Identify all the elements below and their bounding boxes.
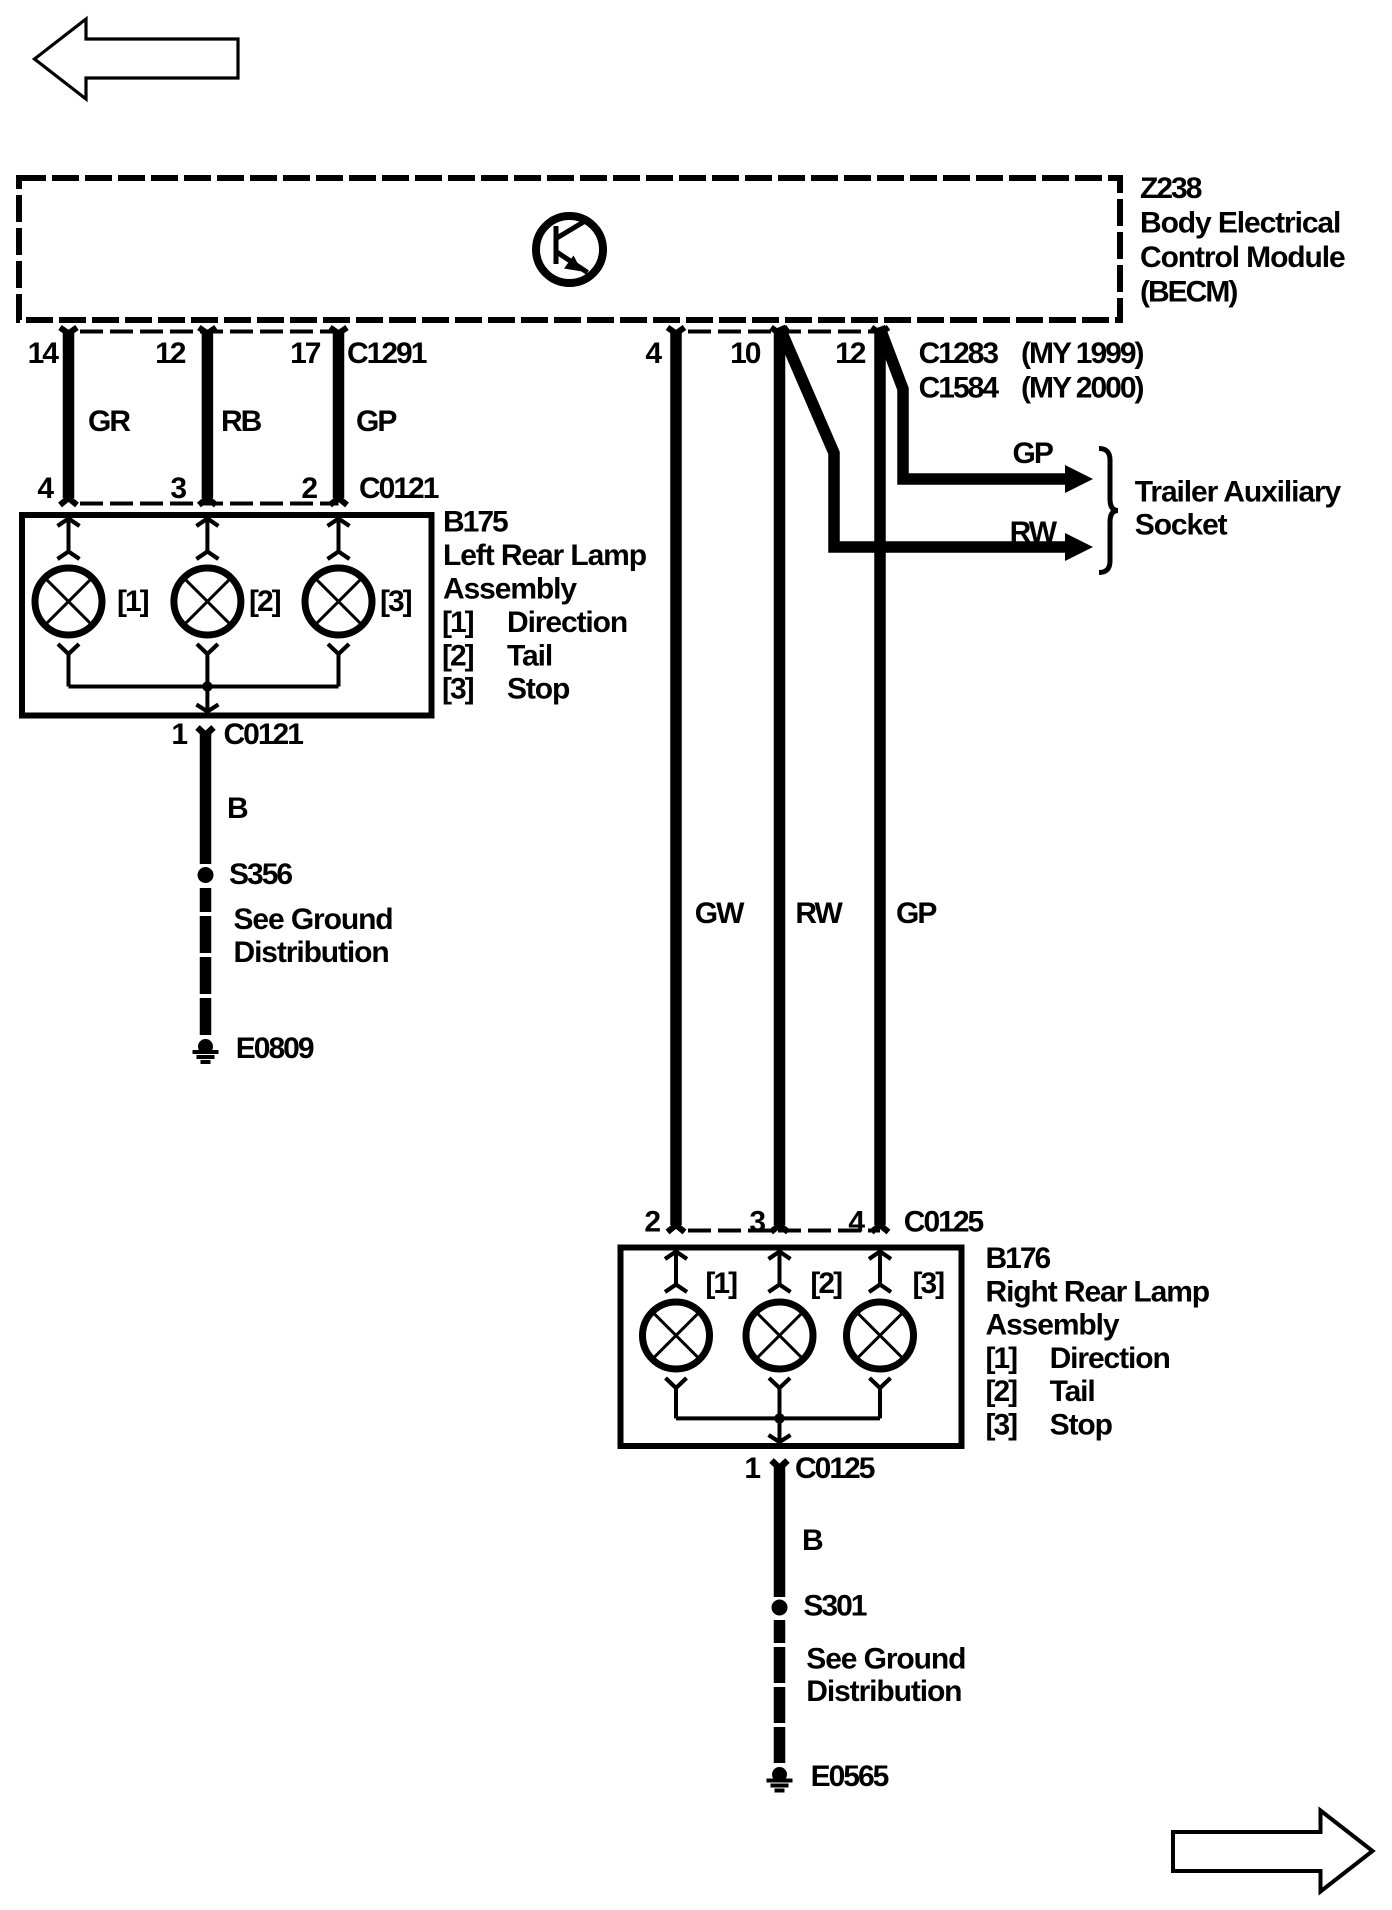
svg-text:12: 12 xyxy=(155,337,186,370)
svg-text:GP: GP xyxy=(1013,437,1053,470)
svg-text:(MY 2000): (MY 2000) xyxy=(1021,372,1144,405)
svg-text:[3]: [3] xyxy=(986,1409,1018,1442)
svg-text:B: B xyxy=(802,1524,823,1557)
svg-text:Direction: Direction xyxy=(507,606,627,639)
svg-text:[1]: [1] xyxy=(986,1342,1018,1375)
svg-text:Z238: Z238 xyxy=(1140,172,1202,205)
svg-text:4: 4 xyxy=(37,472,54,505)
svg-text:C0121: C0121 xyxy=(224,718,304,751)
svg-text:[2]: [2] xyxy=(810,1267,842,1300)
svg-text:Control Module: Control Module xyxy=(1140,241,1345,274)
svg-text:E0565: E0565 xyxy=(811,1760,889,1793)
svg-text:See Ground: See Ground xyxy=(806,1643,965,1676)
svg-text:4: 4 xyxy=(645,337,662,370)
svg-text:B: B xyxy=(227,792,248,825)
svg-text:Distribution: Distribution xyxy=(806,1675,961,1708)
svg-text:Trailer Auxiliary: Trailer Auxiliary xyxy=(1135,476,1342,509)
svg-text:GP: GP xyxy=(896,897,936,930)
svg-text:Assembly: Assembly xyxy=(986,1309,1120,1342)
svg-text:RW: RW xyxy=(1010,516,1058,549)
svg-text:Tail: Tail xyxy=(1050,1375,1095,1408)
svg-text:[1]: [1] xyxy=(117,585,149,618)
svg-text:1: 1 xyxy=(171,718,187,751)
svg-text:E0809: E0809 xyxy=(236,1032,314,1065)
svg-text:S301: S301 xyxy=(803,1590,866,1623)
svg-text:Tail: Tail xyxy=(507,639,552,672)
svg-text:[2]: [2] xyxy=(249,585,281,618)
svg-text:C1283: C1283 xyxy=(919,337,999,370)
svg-text:C0121: C0121 xyxy=(359,472,439,505)
svg-text:C0125: C0125 xyxy=(795,1452,875,1485)
svg-text:GW: GW xyxy=(695,897,745,930)
svg-text:C1584: C1584 xyxy=(919,372,1000,405)
svg-text:B176: B176 xyxy=(986,1242,1051,1275)
svg-text:GP: GP xyxy=(356,405,396,438)
svg-text:4: 4 xyxy=(848,1206,865,1239)
svg-text:(BECM): (BECM) xyxy=(1140,276,1237,309)
svg-text:Right Rear Lamp: Right Rear Lamp xyxy=(986,1275,1210,1308)
svg-text:RB: RB xyxy=(221,405,262,438)
svg-text:17: 17 xyxy=(290,337,321,370)
svg-text:Assembly: Assembly xyxy=(443,573,577,606)
svg-text:Left Rear Lamp: Left Rear Lamp xyxy=(443,539,647,572)
svg-text:1: 1 xyxy=(744,1452,760,1485)
svg-text:S356: S356 xyxy=(229,858,292,891)
svg-text:Socket: Socket xyxy=(1135,509,1228,542)
svg-text:[2]: [2] xyxy=(986,1375,1018,1408)
svg-text:[2]: [2] xyxy=(442,639,474,672)
svg-text:3: 3 xyxy=(170,472,186,505)
svg-text:Stop: Stop xyxy=(507,673,570,706)
svg-text:B175: B175 xyxy=(443,506,508,539)
svg-text:(MY 1999): (MY 1999) xyxy=(1021,337,1144,370)
svg-text:12: 12 xyxy=(835,337,866,370)
svg-text:[3]: [3] xyxy=(380,585,412,618)
svg-text:Direction: Direction xyxy=(1050,1342,1170,1375)
svg-text:[3]: [3] xyxy=(913,1267,945,1300)
svg-text:14: 14 xyxy=(28,337,60,370)
svg-text:[1]: [1] xyxy=(705,1267,737,1300)
svg-text:GR: GR xyxy=(88,405,131,438)
svg-text:[1]: [1] xyxy=(442,606,474,639)
svg-text:[3]: [3] xyxy=(442,673,474,706)
svg-text:10: 10 xyxy=(730,337,761,370)
svg-text:C0125: C0125 xyxy=(904,1206,984,1239)
svg-text:2: 2 xyxy=(644,1206,660,1239)
svg-text:Body Electrical: Body Electrical xyxy=(1140,207,1340,240)
svg-text:C1291: C1291 xyxy=(347,337,427,370)
svg-text:Stop: Stop xyxy=(1050,1409,1113,1442)
svg-text:RW: RW xyxy=(795,897,843,930)
svg-text:See Ground: See Ground xyxy=(234,903,393,936)
svg-text:2: 2 xyxy=(301,472,317,505)
svg-text:Distribution: Distribution xyxy=(234,936,389,969)
svg-text:3: 3 xyxy=(749,1206,765,1239)
